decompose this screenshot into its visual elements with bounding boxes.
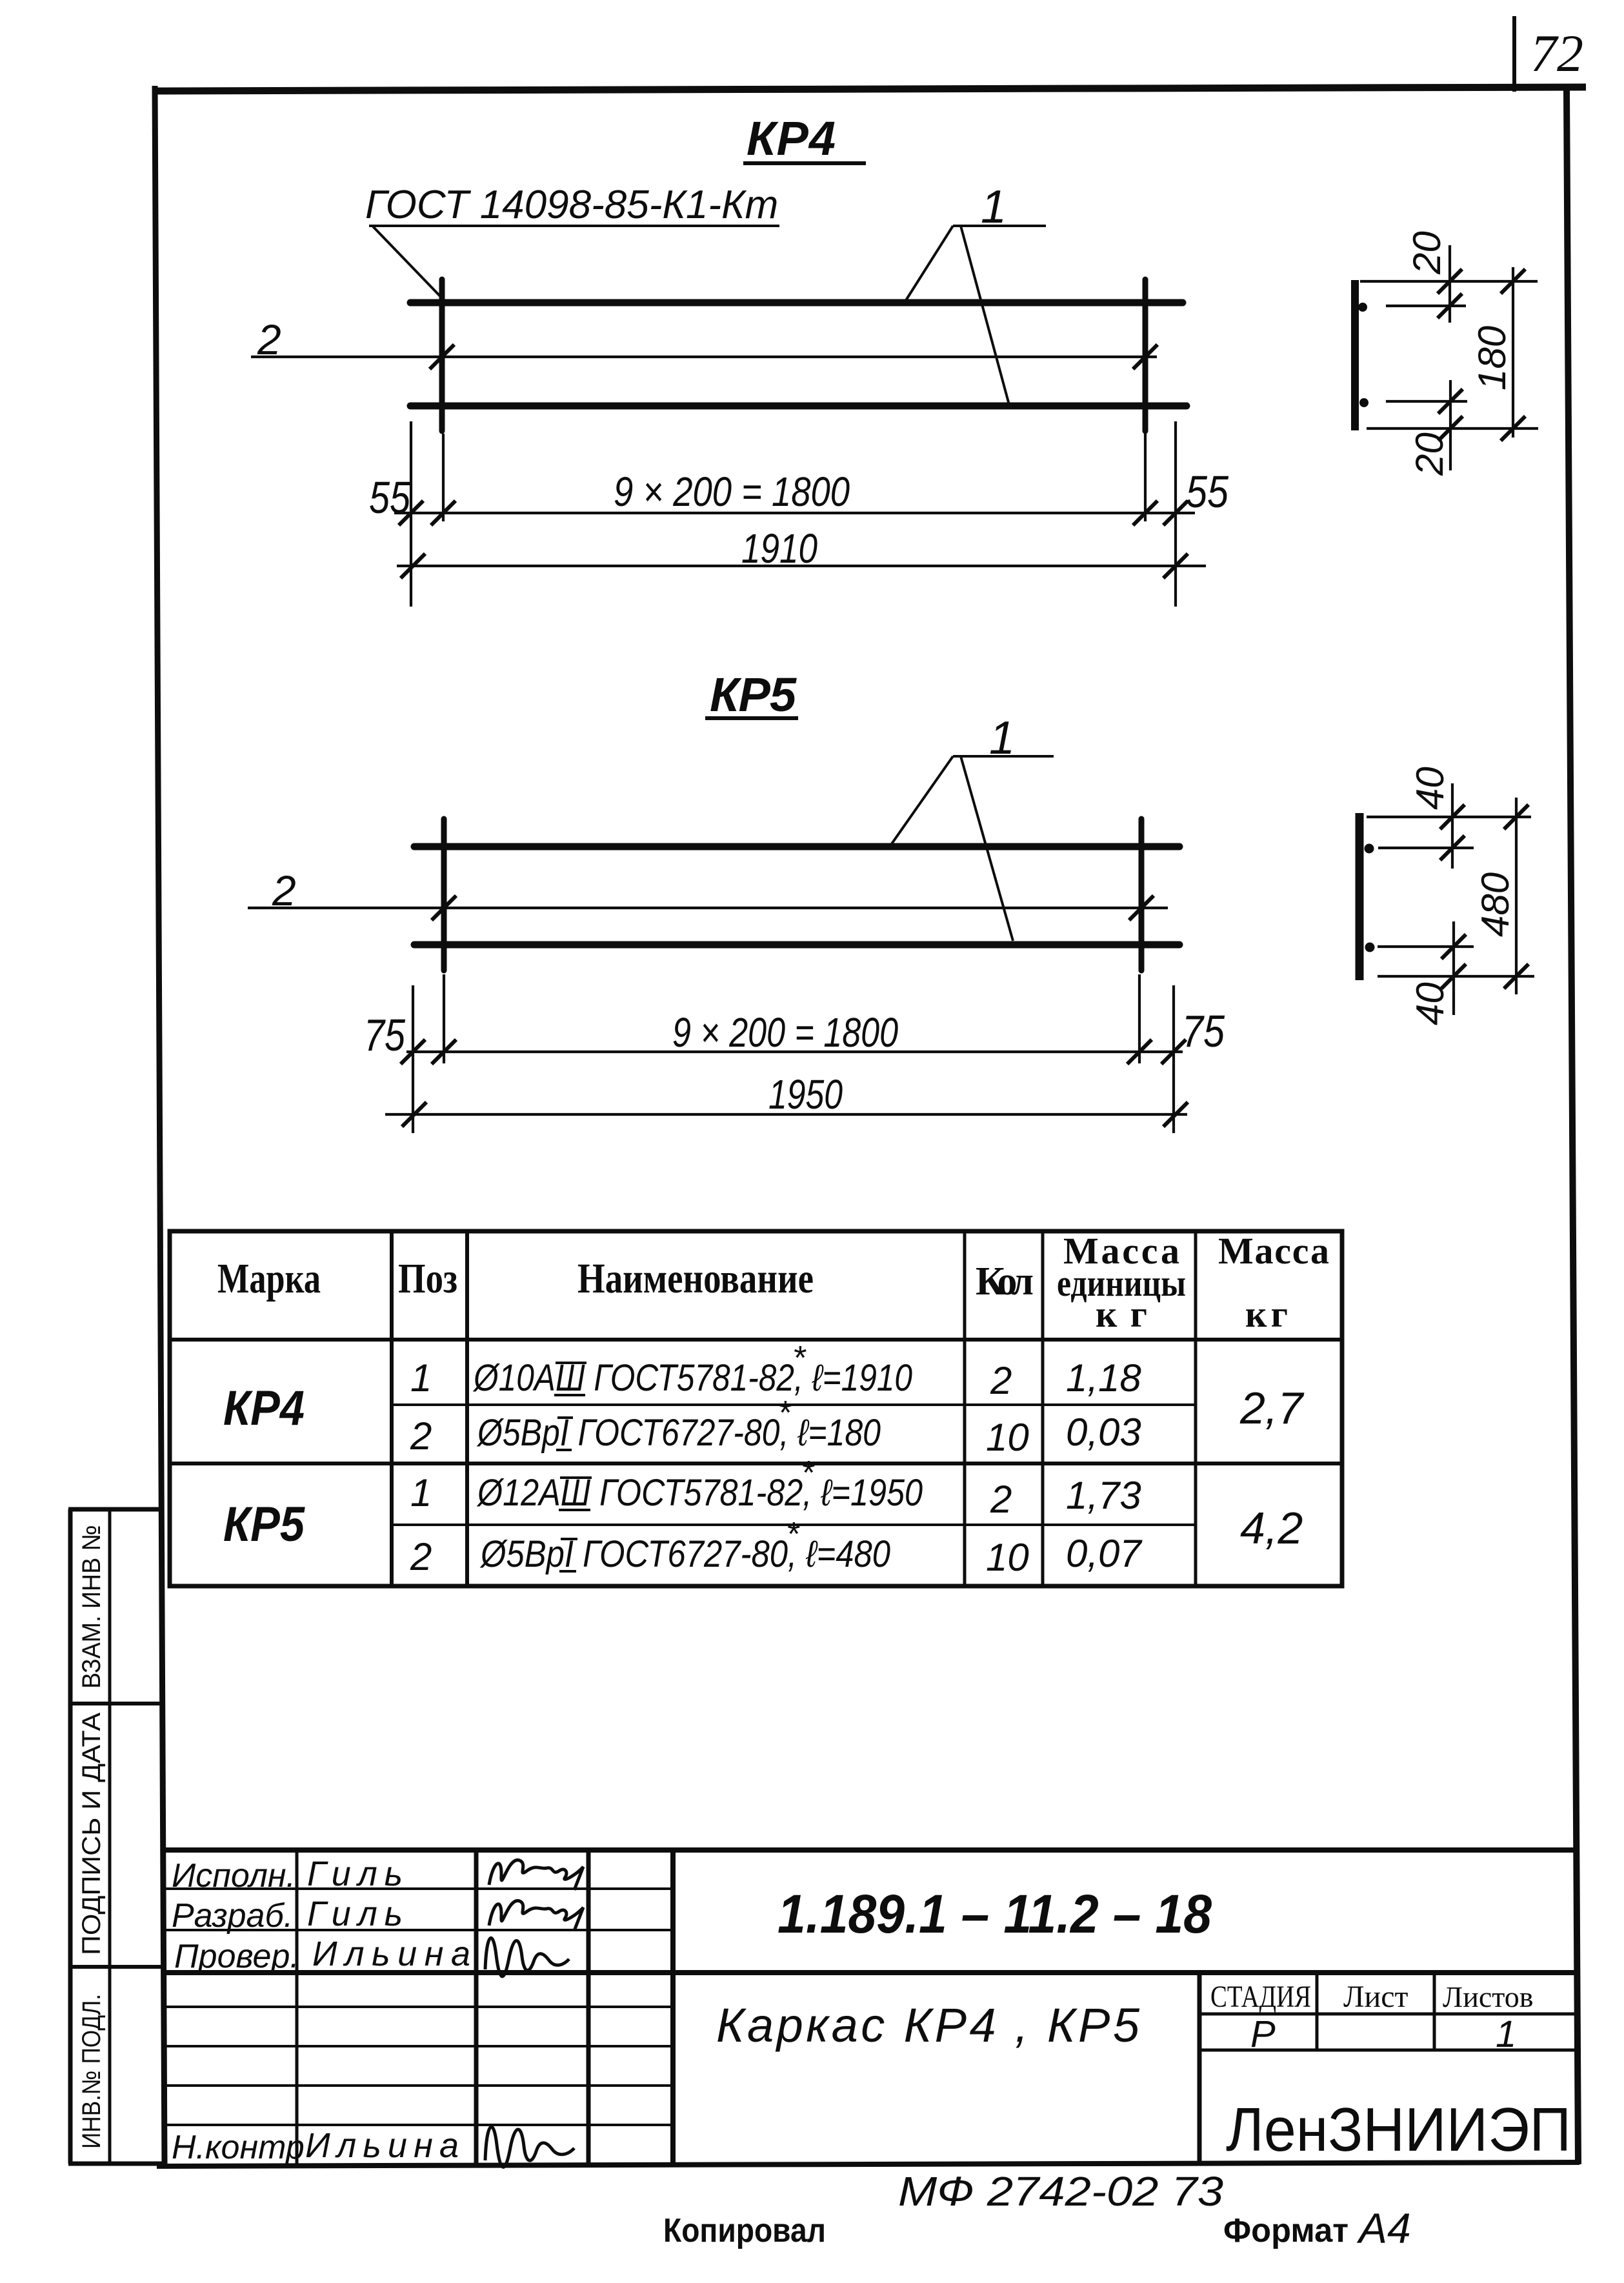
svg-text:Формат: Формат bbox=[1223, 2212, 1348, 2249]
table outer border bbox=[170, 1231, 1342, 1586]
title block thick mid divider bbox=[165, 1970, 1577, 1975]
svg-text:1,18: 1,18 bbox=[1066, 1356, 1141, 1400]
svg-text:СТАДИЯ: СТАДИЯ bbox=[1210, 1980, 1311, 2014]
svg-text:480: 480 bbox=[1474, 872, 1517, 937]
section bar bbox=[1356, 813, 1364, 980]
svg-text:Листов: Листов bbox=[1443, 1980, 1533, 2013]
svg-text:2: 2 bbox=[990, 1478, 1012, 1521]
KP5 bottom bar (pos 1) bbox=[414, 941, 1179, 949]
section bottom dim line bbox=[1378, 975, 1534, 978]
svg-text:Поз: Поз bbox=[398, 1255, 457, 1302]
svg-text:КР4: КР4 bbox=[747, 112, 836, 165]
svg-text:1.189.1 – 11.2 – 18: 1.189.1 – 11.2 – 18 bbox=[777, 1884, 1212, 1944]
svg-text:10: 10 bbox=[986, 1536, 1029, 1579]
svg-text:2,7: 2,7 bbox=[1239, 1383, 1305, 1433]
svg-text:2: 2 bbox=[257, 316, 281, 363]
section vertical dim 180 bbox=[1512, 267, 1514, 437]
section wire 1 bbox=[1378, 847, 1474, 849]
svg-text:Исполн.: Исполн. bbox=[172, 1857, 296, 1895]
KP4 top bar (pos 1) bbox=[410, 299, 1183, 307]
left attachment divider 2 bbox=[70, 1965, 163, 1969]
svg-text:1950: 1950 bbox=[768, 1071, 843, 1118]
left attachment outer box bbox=[68, 1509, 73, 2164]
frame border right bbox=[1567, 90, 1578, 2164]
svg-text:Кол: Кол bbox=[976, 1260, 1034, 1303]
svg-text:55: 55 bbox=[1186, 467, 1229, 517]
ext 40 bottom bbox=[1452, 921, 1455, 1015]
svg-text:55: 55 bbox=[369, 472, 411, 523]
section wire 1 bbox=[1386, 305, 1466, 307]
svg-text:1910: 1910 bbox=[741, 525, 817, 572]
svg-text:Ø5ВрI ГОСТ6727-80, ℓ=480: Ø5ВрI ГОСТ6727-80, ℓ=480 bbox=[479, 1533, 890, 1575]
svg-text:ГОСТ 14098-85-К1-Кт: ГОСТ 14098-85-К1-Кт bbox=[365, 183, 778, 227]
svg-text:Ø10АШ ГОСТ5781-82, ℓ=1910: Ø10АШ ГОСТ5781-82, ℓ=1910 bbox=[472, 1357, 912, 1399]
signature Ilina 2 bbox=[485, 2127, 574, 2167]
KP5 dim line 1950 bbox=[385, 1113, 1187, 1116]
signature Ilina 1 bbox=[485, 1938, 569, 1976]
section top dim line bbox=[1367, 816, 1531, 818]
KP4 right cross wire (pos 2) bbox=[1143, 279, 1148, 431]
svg-text:0,03: 0,03 bbox=[1066, 1411, 1141, 1454]
svg-text:4,2: 4,2 bbox=[1240, 1503, 1303, 1553]
svg-text:1: 1 bbox=[410, 1356, 432, 1400]
svg-text:2: 2 bbox=[272, 867, 296, 914]
svg-text:КР5: КР5 bbox=[710, 668, 797, 721]
KP4 dim line 1910 bbox=[397, 565, 1206, 567]
KP5 left cross wire (pos 2) bbox=[441, 819, 447, 971]
KP4 bottom bar (pos 1) bbox=[410, 403, 1187, 410]
stamp row lines bbox=[163, 1887, 673, 1890]
section wire 2 bbox=[1386, 400, 1467, 403]
svg-text:*: * bbox=[792, 1340, 807, 1377]
section wire 2 bbox=[1378, 945, 1474, 948]
svg-text:9 × 200 = 1800: 9 × 200 = 1800 bbox=[672, 1009, 898, 1056]
svg-text:Ø5ВрI ГОСТ6727-80, ℓ=180: Ø5ВрI ГОСТ6727-80, ℓ=180 bbox=[476, 1412, 881, 1454]
table KP4/KP5 divider bbox=[170, 1462, 1342, 1465]
table KP5 inner row line bbox=[392, 1524, 1196, 1526]
KP4 middle leader line for pos 2 bbox=[251, 356, 1157, 358]
table column line Naimenovanie/Kol bbox=[963, 1231, 967, 1586]
frame border left bbox=[155, 86, 165, 2165]
svg-text:КР5: КР5 bbox=[223, 1497, 306, 1552]
svg-text:1,73: 1,73 bbox=[1066, 1474, 1141, 1517]
svg-text:2: 2 bbox=[410, 1535, 432, 1578]
svg-text:75: 75 bbox=[1182, 1006, 1225, 1056]
svg-text:ВЗАМ. ИНВ №: ВЗАМ. ИНВ № bbox=[77, 1525, 106, 1689]
svg-text:КР4: КР4 bbox=[223, 1381, 305, 1436]
svg-text:*: * bbox=[777, 1394, 792, 1432]
weld leader bbox=[373, 226, 443, 299]
svg-text:2: 2 bbox=[410, 1414, 432, 1458]
stamp column lines bbox=[296, 1850, 299, 2166]
svg-text:*: * bbox=[786, 1516, 800, 1553]
svg-text:Р: Р bbox=[1250, 2013, 1276, 2055]
KP5 top bar (pos 1) bbox=[414, 843, 1179, 850]
section top dim line bbox=[1360, 280, 1538, 283]
svg-text:40: 40 bbox=[1408, 767, 1452, 810]
ext 20 top bbox=[1449, 245, 1451, 323]
stadia/list columns bbox=[1198, 1973, 1202, 2166]
KP5 right cross wire (pos 2) bbox=[1139, 819, 1145, 971]
svg-text:72: 72 bbox=[1530, 24, 1583, 83]
svg-text:75: 75 bbox=[364, 1010, 406, 1060]
section bottom dim line bbox=[1367, 427, 1538, 430]
table column line Poz/Naimenovanie bbox=[465, 1231, 469, 1586]
svg-text:Копировал: Копировал bbox=[663, 2212, 826, 2249]
svg-text:20: 20 bbox=[1408, 432, 1451, 476]
svg-text:10: 10 bbox=[986, 1416, 1029, 1459]
svg-text:Провер.: Провер. bbox=[174, 1938, 299, 1975]
KP4 dimension extension lines bbox=[410, 421, 412, 607]
svg-text:ЛенЗНИИЭП: ЛенЗНИИЭП bbox=[1226, 2095, 1571, 2164]
KP5 middle leader line pos 2 bbox=[248, 907, 1168, 909]
ext 40 top bbox=[1451, 783, 1454, 869]
svg-text:Ø12АШ ГОСТ5781-82, ℓ=1950: Ø12АШ ГОСТ5781-82, ℓ=1950 bbox=[476, 1472, 923, 1514]
page number tick bbox=[1512, 16, 1516, 92]
svg-text:*: * bbox=[801, 1454, 815, 1492]
svg-text:0,07: 0,07 bbox=[1066, 1532, 1143, 1575]
left attachment inner column bbox=[108, 1509, 112, 2164]
svg-text:1: 1 bbox=[410, 1471, 432, 1514]
section vertical dim 480 bbox=[1515, 798, 1518, 994]
KP4 dim line 9x200=1800 bbox=[394, 512, 1195, 514]
svg-text:2: 2 bbox=[990, 1359, 1012, 1402]
table column line Marka/Poz bbox=[390, 1231, 394, 1586]
KP5 dimension extension lines bbox=[412, 985, 414, 1133]
svg-text:Лист: Лист bbox=[1343, 1980, 1408, 2014]
svg-text:20: 20 bbox=[1405, 231, 1449, 275]
KP5 dim line 9x200=1800 bbox=[406, 1051, 1183, 1053]
svg-text:Наименование: Наименование bbox=[577, 1255, 814, 1302]
svg-text:9 × 200 = 1800: 9 × 200 = 1800 bbox=[614, 468, 850, 515]
signature Gil 2 bbox=[489, 1901, 583, 1931]
svg-text:ПОДПИСЬ И ДАТА: ПОДПИСЬ И ДАТА bbox=[77, 1713, 106, 1955]
svg-text:единицы: единицы bbox=[1057, 1262, 1186, 1304]
svg-text:А4: А4 bbox=[1356, 2204, 1411, 2252]
svg-text:кг: кг bbox=[1245, 1293, 1288, 1335]
frame border top bbox=[152, 87, 1586, 91]
section bar bbox=[1351, 280, 1359, 430]
frame border bottom bbox=[157, 2162, 1579, 2166]
table header bottom line bbox=[170, 1338, 1342, 1342]
KP4 left cross wire (pos 2) bbox=[439, 279, 445, 431]
signature Gil 1 bbox=[489, 1860, 583, 1890]
svg-text:Разраб.: Разраб. bbox=[172, 1897, 293, 1935]
table column line Kol/Massa edinicy bbox=[1041, 1231, 1045, 1586]
svg-text:1: 1 bbox=[1496, 2013, 1516, 2055]
left attachment divider 1 bbox=[70, 1702, 162, 1705]
svg-text:Н.контр: Н.контр bbox=[172, 2129, 305, 2166]
title block top border bbox=[165, 1847, 1576, 1853]
svg-text:Марка: Марка bbox=[217, 1255, 321, 1302]
table column line Massa edinicy/Massa bbox=[1194, 1231, 1198, 1586]
ext 20 bottom bbox=[1449, 380, 1452, 470]
svg-text:180: 180 bbox=[1470, 326, 1514, 390]
table KP4 inner row line bbox=[392, 1403, 1196, 1406]
svg-text:ИНВ.№ ПОДЛ.: ИНВ.№ ПОДЛ. bbox=[77, 1994, 106, 2149]
svg-text:40: 40 bbox=[1408, 982, 1452, 1025]
svg-text:МФ 2742-02 73: МФ 2742-02 73 bbox=[898, 2168, 1223, 2215]
